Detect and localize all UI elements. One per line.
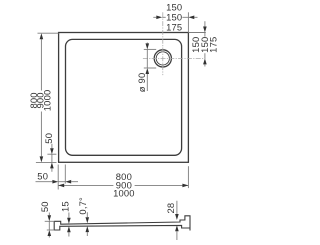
svg-text:50: 50 xyxy=(43,133,54,144)
border 50 bottom arrow xyxy=(50,162,54,168)
svg-text:28: 28 xyxy=(165,203,176,214)
plan view: inner floor rounded rect xyxy=(66,39,182,155)
section 15 dim line xyxy=(68,213,70,237)
right dim line xyxy=(204,21,206,66)
drain horizontal centerline xyxy=(143,57,206,59)
drain outer circle xyxy=(154,50,171,67)
svg-text:ø 90: ø 90 xyxy=(136,73,147,93)
top dim left arrow xyxy=(156,16,162,20)
svg-text:50: 50 xyxy=(39,201,50,212)
section 15 bottom arrow xyxy=(67,226,71,232)
section 50 dim: top tick (lip top extension) xyxy=(45,220,55,222)
bottom main left arrow xyxy=(58,184,64,188)
left dim bottom arrow xyxy=(40,156,44,162)
svg-text:15: 15 xyxy=(60,201,71,212)
section 0.7deg bottom arrow xyxy=(86,226,90,232)
section 50 dim: bottom tick xyxy=(47,229,54,231)
drain dia dim line xyxy=(146,43,148,92)
svg-text:1000: 1000 xyxy=(113,187,135,198)
bottom dims: outer-left extension line xyxy=(57,165,59,190)
bottom 50 dim line xyxy=(36,181,79,183)
border 50 dim line xyxy=(51,144,53,172)
top dim line segments xyxy=(153,16,197,18)
section 0.7deg dim line xyxy=(86,212,88,236)
left dim top arrow xyxy=(40,33,44,39)
bottom 50 left arrow xyxy=(52,180,58,184)
section 0.7deg top arrow xyxy=(86,217,90,223)
section 50 bottom arrow xyxy=(48,230,52,236)
section 15 top arrow xyxy=(67,218,71,224)
bottom main right arrow xyxy=(182,184,188,188)
drain dia dim: bottom tick xyxy=(144,67,156,69)
section 28 top arrow xyxy=(175,214,179,220)
top dim right arrow xyxy=(188,16,194,20)
border width dim 50 (outside bottom-left corner): inner edge tick xyxy=(47,153,56,155)
left dim: bottom extension line xyxy=(36,161,57,163)
plan view: outer tray square xyxy=(59,33,189,163)
bottom dims: inner-left extension line xyxy=(64,165,66,184)
drain vertical centerline xyxy=(162,12,164,75)
left dim line xyxy=(40,39,42,156)
section 28 bottom arrow xyxy=(175,225,179,231)
section 28 dim line xyxy=(176,201,178,240)
bottom main dim line xyxy=(58,184,188,186)
svg-text:1000: 1000 xyxy=(42,90,53,112)
section view: profile outer/top outline xyxy=(54,216,190,231)
svg-text:0,7°: 0,7° xyxy=(77,197,88,215)
section 50 dim line xyxy=(48,213,50,238)
section 50 top arrow xyxy=(48,215,52,221)
drain dia dim top arrow xyxy=(146,43,150,49)
left dim: top extension line xyxy=(38,32,59,34)
border 50 top arrow xyxy=(50,148,54,154)
drain inner circle xyxy=(156,52,169,65)
right dim top arrow xyxy=(203,27,207,33)
bottom 50 right arrow xyxy=(65,180,71,184)
right dim bottom arrow xyxy=(203,58,207,64)
svg-text:175: 175 xyxy=(166,22,182,33)
drain dia dim: top tick xyxy=(144,48,156,50)
bottom dims: right extension line xyxy=(187,166,189,188)
drain dia dim bottom arrow xyxy=(146,68,150,74)
section view: profile bottom/inner outline xyxy=(54,221,190,230)
right dim: extension line from top edge xyxy=(188,32,205,34)
svg-text:50: 50 xyxy=(37,171,48,182)
top dim: extension line of right edge xyxy=(187,12,189,32)
svg-text:175: 175 xyxy=(208,37,219,53)
